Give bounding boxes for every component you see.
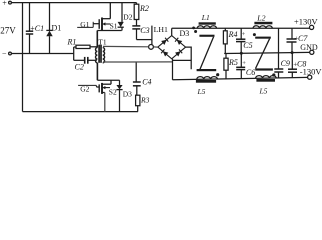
node dot C8 ground (291, 51, 294, 54)
capacitor C8 (291, 53, 293, 70)
wire ground rail (224, 52, 310, 53)
inductor L6 (256, 76, 277, 79)
svg-text:−: − (2, 49, 7, 58)
svg-text:L2: L2 (256, 13, 265, 22)
transistor S2 (98, 84, 100, 92)
svg-text:L5: L5 (259, 87, 268, 96)
svg-text:C5: C5 (243, 41, 252, 50)
wire bottom output rail (173, 77, 308, 79)
resistor R5 (225, 54, 227, 59)
svg-text:+: + (2, 0, 7, 7)
capacitor C7 (291, 28, 293, 39)
wire left vertical bus (22, 3, 24, 112)
svg-text:R4: R4 (228, 30, 238, 39)
plus 130V terminal (310, 25, 314, 29)
inductor L5 (197, 77, 218, 80)
wire bottom rail (23, 111, 138, 113)
svg-text:S1: S1 (110, 22, 118, 31)
wire bridge bottom drop (172, 59, 174, 80)
minus input terminal (9, 52, 12, 55)
transistor S1 (98, 19, 100, 29)
wire LH1 leader (151, 26, 153, 45)
svg-text:27V: 27V (0, 25, 16, 35)
wire S1 source node (97, 30, 121, 32)
capacitor C6 (240, 53, 242, 67)
svg-text:C7: C7 (298, 34, 308, 43)
wire minus-to-R1/C2 vertical (73, 47, 75, 60)
core link Z2 (255, 37, 271, 39)
svg-text:S2: S2 (109, 87, 117, 96)
capacitor C3 (132, 25, 140, 27)
core link Z1 (199, 35, 214, 37)
wire minus bus (11, 53, 73, 55)
svg-text:R5: R5 (228, 58, 238, 67)
wire secondary top (103, 45, 149, 47)
bridge rectifier D3 (158, 36, 186, 59)
resistor R4 (224, 28, 226, 31)
wire S2 drain node (97, 79, 119, 81)
resistor R2 (136, 3, 138, 5)
svg-text:R3: R3 (140, 95, 150, 104)
wire top output rail (172, 27, 310, 29)
svg-text:R2: R2 (139, 4, 149, 13)
capacitor C1 (29, 3, 31, 32)
resistor R3 (136, 95, 140, 106)
svg-text:C2: C2 (75, 63, 84, 72)
svg-text:-130V: -130V (300, 66, 322, 76)
lamp LH1 terminal (149, 45, 154, 50)
polarity dot L2 (253, 33, 256, 36)
wire primary top vertical (96, 31, 98, 48)
svg-text:LH1: LH1 (154, 25, 168, 34)
plus input terminal (9, 1, 12, 4)
diode D2 (121, 3, 123, 22)
capacitor C2 (74, 59, 85, 61)
svg-text:+130V: +130V (294, 17, 319, 27)
polarity dot L1 (194, 30, 197, 33)
wire bridge right hook (186, 47, 192, 69)
node dot C5 ground (240, 52, 243, 55)
wire primary bottom vertical (96, 63, 98, 80)
polarity dot L5 (216, 73, 219, 76)
capacitor C4 (135, 62, 137, 82)
svg-text:L1: L1 (201, 13, 210, 22)
svg-text:C9: C9 (281, 59, 290, 68)
svg-text:+: + (242, 60, 246, 67)
wire bridge top to rail (171, 28, 173, 35)
svg-text:R1: R1 (67, 38, 77, 47)
capacitor C9 (278, 28, 280, 69)
minus 130V terminal (308, 75, 312, 79)
wire top plus bus (11, 2, 136, 4)
svg-text:C4: C4 (142, 78, 151, 87)
svg-text:D3: D3 (123, 90, 132, 99)
diode D1 (49, 3, 51, 31)
svg-text:D1: D1 (52, 23, 62, 32)
svg-text:C6: C6 (246, 68, 255, 77)
svg-text:C1: C1 (35, 24, 44, 33)
capacitor C5 (240, 28, 242, 39)
wire secondary bottom (103, 61, 173, 63)
svg-text:L5: L5 (197, 87, 206, 96)
polarity dot L6 (272, 73, 275, 76)
svg-text:D3: D3 (180, 29, 190, 38)
svg-text:+: + (242, 31, 246, 38)
diode D3 freewheel (119, 80, 121, 85)
svg-text:C3: C3 (140, 26, 149, 35)
inductor L1 (199, 22, 216, 24)
svg-text:D2: D2 (123, 13, 132, 22)
wire C3 to lamp node (137, 39, 153, 41)
inductor L2 (254, 22, 272, 25)
GND terminal (310, 50, 314, 54)
svg-text:GND: GND (300, 43, 318, 52)
